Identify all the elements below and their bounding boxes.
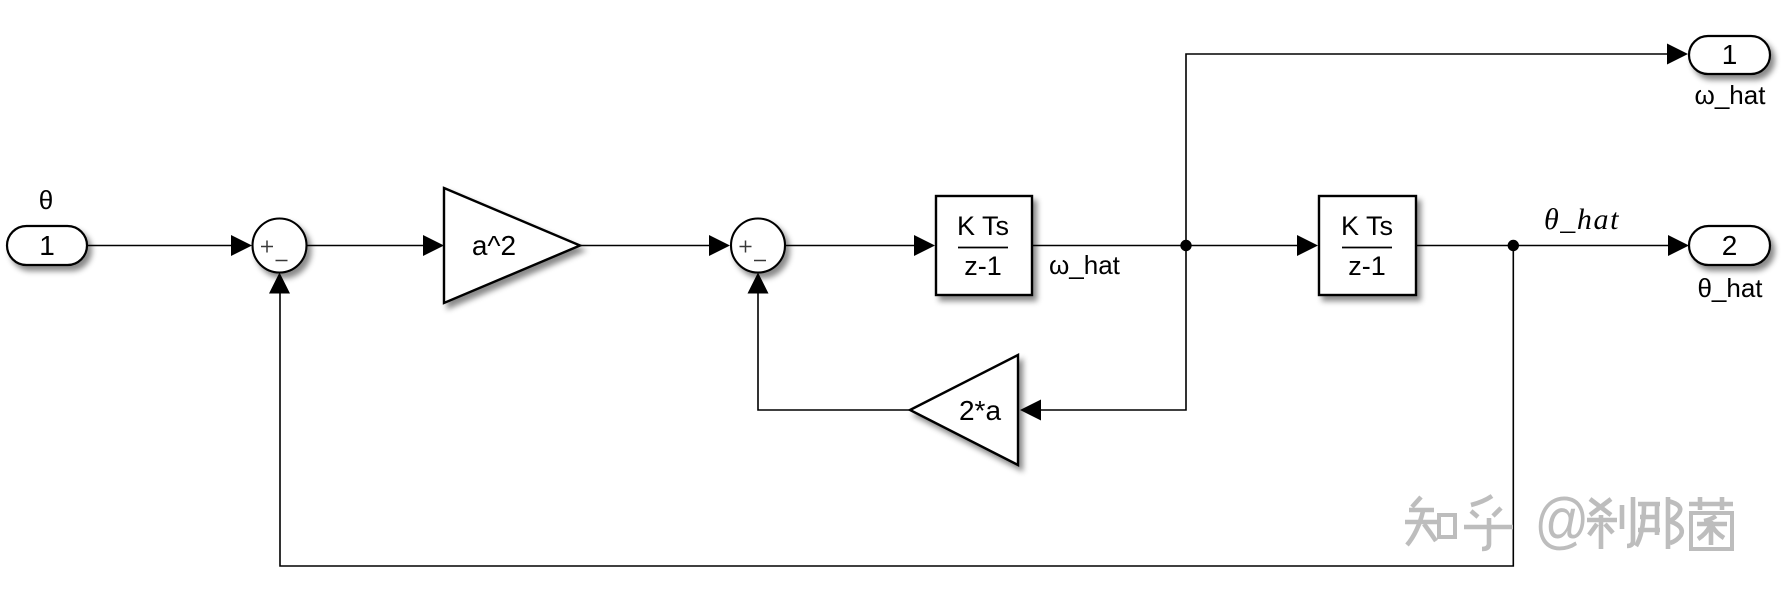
watermark zhihu @chanajun: [1405, 486, 1733, 555]
wire J1 down to gain 2*a: [1020, 246, 1186, 421]
watermark @: [1535, 486, 1590, 555]
svg-text:@: @: [1535, 486, 1590, 555]
sum block Sum2: [731, 219, 785, 273]
svg-text:K Ts: K Ts: [957, 211, 1009, 241]
input port In1: [7, 226, 87, 265]
wire In1 to Sum1: [87, 235, 252, 256]
sum block Sum1: [253, 219, 307, 273]
integrator block K Ts/(z-1) #2: [1319, 196, 1416, 295]
svg-text:z-1: z-1: [1348, 251, 1386, 281]
svg-text:θ_hat: θ_hat: [1697, 273, 1763, 303]
gain block a^2: [444, 188, 580, 303]
wire integrator2 to Out2: [1416, 235, 1689, 256]
node junction J2: [1508, 240, 1519, 251]
svg-text:z-1: z-1: [964, 251, 1002, 281]
watermark char zhi: [1405, 497, 1455, 545]
svg-text:1: 1: [39, 230, 55, 261]
svg-text:K Ts: K Ts: [1341, 211, 1393, 241]
wire J2 outer feedback to Sum1 bottom: [269, 246, 1513, 567]
integrator block K Ts/(z-1) #1: [936, 196, 1032, 295]
svg-text:ω_hat: ω_hat: [1049, 250, 1121, 280]
svg-text:a^2: a^2: [472, 230, 516, 261]
svg-text:1: 1: [1722, 39, 1738, 70]
svg-text:2: 2: [1722, 230, 1738, 261]
gain block 2*a: [910, 355, 1018, 465]
node junction J1: [1180, 240, 1191, 251]
watermark char na: [1636, 497, 1682, 549]
wire Sum2 to integrator 1: [785, 235, 936, 256]
svg-text:θ: θ: [39, 185, 53, 215]
wire gain a^2 to Sum2: [580, 235, 730, 256]
output port Out2: [1689, 226, 1770, 265]
wire Sum1 to gain a^2: [306, 235, 444, 256]
watermark char sha: [1587, 497, 1633, 549]
svg-text:2*a: 2*a: [959, 395, 1001, 426]
wire 2*a to Sum2 bottom: [748, 273, 911, 411]
svg-text:θ_hat: θ_hat: [1544, 203, 1620, 236]
svg-text:ω_hat: ω_hat: [1695, 80, 1767, 110]
watermark char hu: [1464, 496, 1513, 549]
wire J1 up to Out1: [1186, 44, 1688, 246]
output port Out1: [1689, 36, 1770, 74]
wire integrator1 to integrator2: [1032, 235, 1318, 256]
watermark char jun: [1689, 497, 1733, 549]
